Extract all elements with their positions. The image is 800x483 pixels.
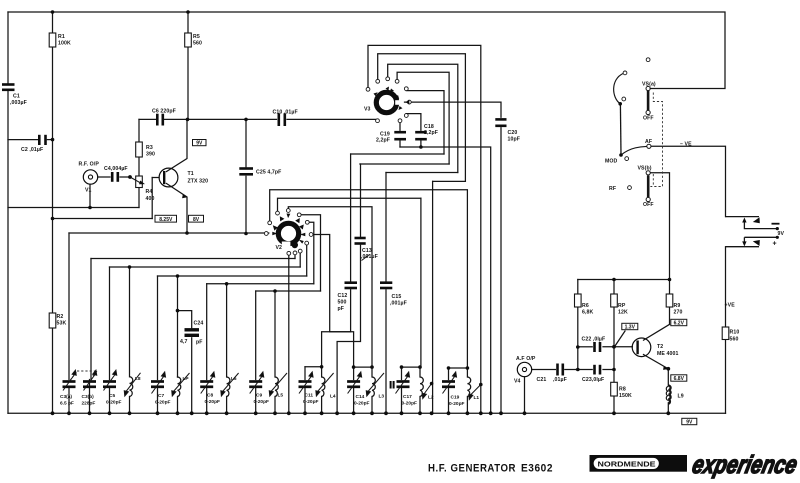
svg-text:C15: C15	[392, 294, 402, 300]
svg-text:0-20pF: 0-20pF	[402, 401, 418, 407]
svg-text:RP: RP	[618, 303, 626, 309]
svg-text:C25 4,7pF: C25 4,7pF	[256, 170, 281, 176]
svg-text:A.F O/P: A.F O/P	[516, 356, 536, 362]
svg-text:R4: R4	[146, 189, 153, 195]
svg-text:12K: 12K	[618, 310, 628, 316]
svg-text:V1: V1	[85, 188, 92, 194]
svg-text:C8: C8	[207, 393, 213, 399]
svg-text:pF: pF	[338, 306, 345, 312]
svg-text:560: 560	[193, 41, 202, 47]
svg-text:RF: RF	[609, 186, 616, 192]
svg-text:2,2pF: 2,2pF	[376, 138, 390, 144]
svg-text:0-20pF: 0-20pF	[205, 399, 221, 405]
svg-text:400: 400	[146, 196, 155, 202]
svg-text:C4,004µF: C4,004µF	[104, 166, 128, 172]
svg-text:390: 390	[146, 152, 155, 158]
svg-text:10pF: 10pF	[508, 137, 521, 143]
svg-text:0-20pF: 0-20pF	[155, 400, 171, 406]
svg-text:C20: C20	[508, 130, 518, 136]
svg-text:AF: AF	[645, 139, 652, 145]
svg-text:R6: R6	[582, 303, 589, 309]
svg-text:C6 220pF: C6 220pF	[152, 109, 176, 115]
svg-text:C2 ,01µF: C2 ,01µF	[21, 147, 43, 153]
svg-text:,001​µF: ,001​µF	[361, 254, 378, 260]
svg-text:C9: C9	[256, 393, 262, 399]
svg-text:V4: V4	[514, 379, 521, 385]
svg-text:L6: L6	[231, 376, 237, 382]
svg-text:R9: R9	[674, 303, 681, 309]
svg-text:2,2pF: 2,2pF	[424, 130, 438, 136]
svg-text:V3: V3	[364, 107, 371, 113]
svg-text:NORDMENDE: NORDMENDE	[598, 462, 656, 469]
svg-text:6.2V: 6.2V	[674, 321, 685, 327]
svg-text:150K: 150K	[619, 393, 632, 399]
svg-text:LP: LP	[183, 376, 190, 382]
svg-text:8.25V: 8.25V	[159, 217, 173, 223]
svg-text:C10 ,01µF: C10 ,01µF	[273, 110, 298, 116]
svg-text:6.8V: 6.8V	[674, 376, 685, 382]
svg-text:ZTX 320: ZTX 320	[188, 179, 209, 185]
svg-text:L2: L2	[428, 395, 434, 401]
svg-text:L8: L8	[135, 376, 141, 382]
svg-text:T1: T1	[188, 171, 194, 177]
svg-text:C3(a): C3(a)	[60, 394, 72, 400]
svg-text:100K: 100K	[58, 41, 71, 47]
svg-text:53K: 53K	[57, 321, 67, 327]
svg-text:,001µF: ,001µF	[390, 301, 407, 307]
svg-text:0-20pF: 0-20pF	[106, 400, 122, 406]
svg-text:experience: experience	[690, 451, 800, 479]
svg-text:C17: C17	[403, 394, 412, 400]
svg-text:C14: C14	[356, 394, 365, 400]
svg-text:+VE: +VE	[725, 303, 736, 309]
svg-text:L3: L3	[379, 394, 385, 400]
svg-text:0-20pF: 0-20pF	[303, 399, 319, 405]
svg-text:C21: C21	[537, 377, 547, 383]
svg-text:R1: R1	[58, 34, 65, 40]
svg-text:V2: V2	[276, 245, 283, 251]
svg-text:R10: R10	[730, 330, 740, 336]
svg-text:E3602: E3602	[521, 463, 553, 475]
svg-text:C23,0IµF: C23,0IµF	[582, 377, 604, 383]
svg-text:0-20pF: 0-20pF	[354, 401, 370, 407]
svg-text:C12: C12	[338, 293, 348, 299]
svg-text:R.F. O/P: R.F. O/P	[79, 162, 100, 168]
svg-text:1.3V: 1.3V	[625, 325, 636, 331]
svg-text:4,7: 4,7	[180, 339, 188, 345]
svg-text:pF: pF	[196, 340, 203, 346]
svg-text:0-20pF: 0-20pF	[449, 401, 465, 407]
svg-text:L9: L9	[678, 394, 684, 400]
svg-text:VS(b): VS(b)	[638, 166, 652, 172]
svg-text:500: 500	[338, 300, 347, 306]
svg-text:9V: 9V	[778, 231, 785, 237]
svg-text:C3(b): C3(b)	[82, 394, 95, 400]
svg-text:8V: 8V	[193, 217, 200, 223]
svg-text:+: +	[773, 241, 777, 248]
svg-text:R3: R3	[146, 145, 153, 151]
svg-text:,003µF: ,003µF	[10, 100, 27, 106]
svg-text:L4: L4	[330, 394, 336, 400]
svg-text:R2: R2	[57, 314, 64, 320]
svg-text:C7: C7	[158, 393, 164, 399]
svg-text:VS(a): VS(a)	[642, 82, 656, 88]
svg-text:R8: R8	[619, 387, 626, 393]
svg-text:T2: T2	[657, 344, 663, 350]
svg-text:MOD: MOD	[605, 159, 618, 165]
svg-text:,01µF: ,01µF	[553, 377, 567, 383]
svg-text:– VE: – VE	[680, 142, 692, 148]
svg-text:C11: C11	[305, 393, 314, 399]
svg-text:OFF: OFF	[643, 202, 654, 208]
svg-text:6,8K: 6,8K	[582, 310, 594, 316]
svg-text:OFF: OFF	[643, 116, 654, 122]
svg-text:L1: L1	[474, 395, 480, 401]
svg-text:C5: C5	[109, 393, 115, 399]
svg-text:H.F. GENERATOR: H.F. GENERATOR	[428, 463, 516, 475]
svg-text:C1: C1	[13, 94, 20, 100]
svg-text:C22 ,0IµF: C22 ,0IµF	[582, 337, 606, 343]
svg-text:9V: 9V	[686, 420, 693, 426]
svg-text:C24: C24	[194, 321, 204, 327]
svg-text:C19: C19	[451, 395, 460, 401]
svg-text:6.5 pF: 6.5 pF	[60, 401, 74, 407]
svg-text:228pF: 228pF	[82, 401, 96, 407]
svg-text:9V: 9V	[196, 141, 203, 147]
svg-text:L5: L5	[278, 393, 284, 399]
svg-text:ME 4001: ME 4001	[657, 351, 678, 357]
svg-text:0-20pF: 0-20pF	[254, 399, 270, 405]
svg-text:560: 560	[730, 337, 739, 343]
svg-text:270: 270	[674, 310, 683, 316]
svg-text:R5: R5	[193, 34, 200, 40]
